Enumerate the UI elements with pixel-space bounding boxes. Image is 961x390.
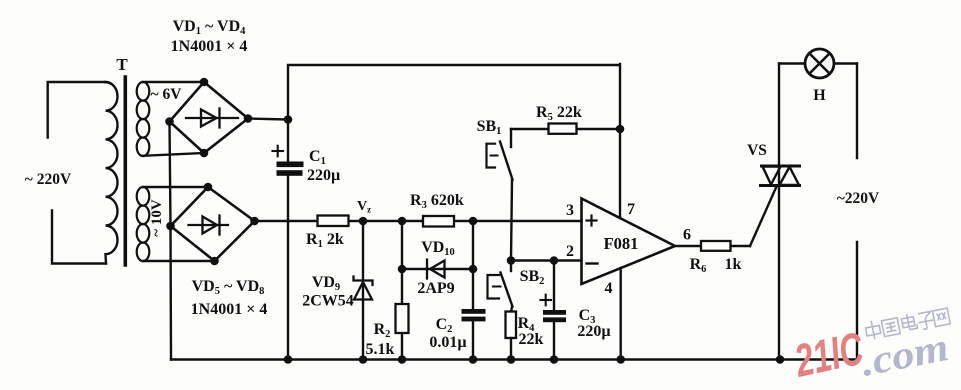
junction ground R4: [507, 355, 516, 364]
transformer T primary winding: [48, 82, 106, 264]
resistor R2 box: [396, 304, 409, 333]
transformer secondary winding ~6V: [137, 82, 150, 101]
capacitor C1 column wire: [287, 120, 289, 360]
junction C3 top: [550, 256, 559, 265]
op-amp U1 F081 triangle: [582, 199, 676, 285]
junction ground R2: [398, 355, 407, 364]
wire secondary2 top to bridge2 top: [143, 186, 208, 188]
junction ground triac: [776, 355, 785, 364]
svg-text:7: 7: [627, 201, 635, 218]
triac VS column wire: [778, 64, 780, 360]
capacitor C3 plates: [543, 310, 566, 322]
svg-text:22k: 22k: [519, 331, 544, 348]
diode inside bridge1: [186, 109, 238, 128]
glyph guo: [881, 318, 900, 337]
junction VD10 left: [398, 265, 407, 274]
svg-text:1N4001 × 4: 1N4001 × 4: [191, 301, 268, 318]
diode VD10 row wire: [402, 268, 473, 270]
junction bridge1 top corner: [200, 78, 209, 87]
svg-text:R3 620k: R3 620k: [410, 192, 464, 211]
wire bridge1 right to C1 junction, up and top rail to pin7: [248, 64, 620, 218]
plus sign C3: [541, 295, 552, 306]
glyph wang: [932, 308, 950, 327]
bridge rectifier VD1~VD4 diamond: [170, 82, 249, 153]
transformer core: [124, 77, 128, 265]
capacitor C1 plates: [277, 162, 304, 176]
junction ground C1: [284, 355, 293, 364]
svg-text:1k: 1k: [725, 256, 742, 273]
minus input mark: [587, 262, 598, 264]
svg-text:~ 10V: ~ 10V: [149, 199, 165, 237]
junction ground pin4: [616, 355, 625, 364]
wire secondary1 bottom to bridge1 bottom: [143, 153, 204, 156]
diode VD10 symbol: [427, 260, 445, 279]
bridge rectifier VD5~VD8 diamond: [171, 187, 255, 261]
junction R3 right: [469, 217, 478, 226]
svg-text:0.01µ: 0.01µ: [429, 334, 466, 351]
junction bridge1 right corner: [244, 114, 253, 123]
triac VS symbol: [761, 166, 800, 186]
switch SB2: [510, 261, 512, 272]
glyph zi: [917, 311, 935, 330]
wire lamp leads: [779, 62, 857, 64]
switch SB1: [510, 129, 512, 147]
pin4 wire: [620, 268, 622, 360]
junction R5 right pin7: [616, 125, 625, 134]
Vz rail (pin3 rail): [255, 220, 582, 222]
lamp H: [805, 49, 834, 78]
transformer secondary winding ~10V: [137, 187, 150, 206]
R2 column wire: [401, 221, 403, 360]
diode inside bridge2: [189, 216, 229, 235]
svg-text:2CW54: 2CW54: [302, 293, 354, 310]
resistor R6 box: [701, 241, 731, 251]
node Vz: [359, 217, 368, 226]
svg-text:T: T: [116, 55, 128, 74]
svg-text:VD5 ~ VD8: VD5 ~ VD8: [192, 278, 265, 297]
junction bridge2 right corner: [250, 217, 259, 226]
svg-text:6: 6: [683, 227, 691, 244]
gate wire to triac: [750, 187, 777, 247]
watermark 21IC red: [790, 322, 869, 387]
capacitor C2 plates: [462, 309, 486, 321]
resistor R5 box: [549, 124, 577, 134]
C3 column wire: [553, 261, 555, 360]
junction ground C3: [550, 355, 559, 364]
svg-text:2: 2: [566, 243, 574, 260]
zener VD9 symbol: [354, 277, 373, 300]
svg-text:R5 22k: R5 22k: [536, 104, 582, 123]
junction bridge1 left corner: [165, 117, 174, 126]
output pin6 wire: [675, 245, 750, 247]
svg-text:1N4001 × 4: 1N4001 × 4: [171, 38, 248, 55]
junction bridge1 bottom corner: [200, 149, 209, 158]
resistor R4 box: [506, 312, 517, 339]
svg-text:F081: F081: [604, 234, 639, 253]
wire right branch ~220V: [856, 64, 858, 360]
svg-text:5.1k: 5.1k: [366, 341, 395, 358]
junction bridge2 left corner: [166, 222, 175, 231]
svg-text:3: 3: [566, 202, 574, 219]
resistor R1 box: [318, 216, 349, 227]
svg-text:VS: VS: [747, 142, 767, 159]
junction bridge2 bottom corner: [210, 257, 219, 266]
junction SB2 top pin2: [507, 256, 516, 265]
junction VD10 right: [469, 265, 478, 274]
svg-text:~ 220V: ~ 220V: [25, 171, 72, 188]
glyph dian: [901, 312, 918, 330]
junction ground C2: [469, 355, 478, 364]
junction R2 top: [398, 217, 407, 226]
pin2 row wire: [511, 259, 582, 261]
ground rail: [171, 358, 857, 360]
svg-text:220µ: 220µ: [577, 323, 610, 340]
wire secondary2 bottom to bridge2 bottom: [143, 260, 215, 262]
zener VD9 column wire: [362, 221, 364, 360]
resistor R5 row wire: [511, 128, 620, 130]
plus sign C1: [273, 146, 284, 157]
svg-text:H: H: [813, 87, 826, 104]
wire bridge left corners down to ground rail: [170, 122, 172, 360]
plus input mark: [587, 216, 597, 226]
junction ground VD9: [359, 355, 368, 364]
svg-text:R1 2k: R1 2k: [306, 231, 344, 250]
C2 column wire: [472, 221, 474, 360]
junction C1 top node: [284, 115, 293, 124]
svg-text:~220V: ~220V: [837, 190, 880, 207]
glyph zhong: [864, 319, 881, 340]
svg-text:2AP9: 2AP9: [417, 280, 454, 297]
svg-text:4: 4: [605, 280, 613, 297]
svg-text:~ 6V: ~ 6V: [151, 86, 183, 103]
svg-text:220µ: 220µ: [307, 167, 340, 184]
junction bridge2 top corner: [204, 183, 213, 192]
watermark .com blue script: [857, 324, 952, 385]
svg-text:VD1 ~ VD4: VD1 ~ VD4: [173, 18, 247, 37]
wire secondary1 top to bridge1 top: [143, 81, 204, 83]
resistor R3 box: [423, 216, 454, 227]
watermark CJK 中国电子网 (approximated glyphs): [864, 306, 950, 341]
